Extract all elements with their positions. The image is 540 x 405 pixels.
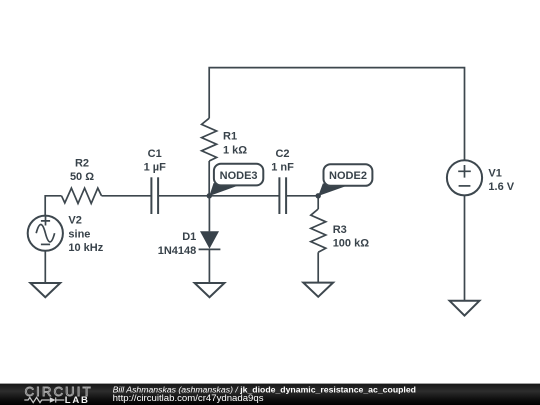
wire top bus from R1 top to V1 top <box>209 68 464 161</box>
voltage source V2 <box>28 216 63 251</box>
svg-text:1 µF: 1 µF <box>144 162 167 174</box>
junction dot NODE2 <box>316 193 321 198</box>
svg-text:1N4148: 1N4148 <box>158 245 197 257</box>
wire V2 bottom to ground <box>44 251 46 283</box>
capacitor C1 <box>151 177 158 214</box>
svg-text:R2: R2 <box>75 158 89 170</box>
resistor R1 <box>202 118 217 196</box>
logo resistor-diode glyph <box>24 397 64 403</box>
node NODE2 flag <box>318 164 372 196</box>
svg-text:1 nF: 1 nF <box>271 162 294 174</box>
svg-text:V2: V2 <box>68 215 81 227</box>
svg-text:R3: R3 <box>333 224 347 236</box>
voltage source V1 <box>447 160 482 195</box>
wire R3 top lead <box>317 196 319 209</box>
wire R2 right to C1 left plate <box>102 195 152 197</box>
svg-text:R1: R1 <box>223 131 237 143</box>
svg-text:LAB: LAB <box>65 395 90 405</box>
ground (V2) <box>30 283 60 297</box>
svg-text:NODE3: NODE3 <box>220 170 258 182</box>
svg-text:10 kHz: 10 kHz <box>68 242 103 254</box>
svg-text:50 Ω: 50 Ω <box>70 171 94 183</box>
svg-text:C1: C1 <box>148 148 162 160</box>
svg-text:C2: C2 <box>275 148 289 160</box>
wire V2 top to R2 left <box>45 196 61 216</box>
ground (R3) <box>303 283 333 297</box>
diode D1 <box>199 231 221 249</box>
svg-text:sine: sine <box>68 228 90 240</box>
node NODE3 flag <box>209 164 263 196</box>
svg-text:1.6 V: 1.6 V <box>488 181 514 193</box>
wire C1 right plate to node NODE3 <box>158 195 209 197</box>
ground (D1) <box>195 283 225 297</box>
capacitor C2 <box>279 177 286 214</box>
svg-text:1 kΩ: 1 kΩ <box>223 144 247 156</box>
resistor R3 <box>311 209 326 252</box>
footer bar <box>0 384 540 405</box>
resistor R2 <box>62 188 102 203</box>
svg-text:100 kΩ: 100 kΩ <box>333 237 370 249</box>
wire NODE3 down to diode D1 anode <box>208 196 210 232</box>
svg-text:http://circuitlab.com/cr47ydna: http://circuitlab.com/cr47ydnada9qs <box>113 393 264 404</box>
ground (V1) <box>450 301 480 316</box>
wire NODE3 to C2 left plate <box>209 195 279 197</box>
wire V1 bottom to ground <box>464 195 466 300</box>
svg-text:NODE2: NODE2 <box>329 170 367 182</box>
wire D1 cathode to ground <box>208 249 210 283</box>
wire C2 right plate to node NODE2 <box>286 195 318 197</box>
junction dot NODE3 <box>207 193 212 198</box>
svg-text:D1: D1 <box>182 231 196 243</box>
wire R3 bottom to ground <box>317 252 319 282</box>
svg-text:V1: V1 <box>488 168 501 180</box>
